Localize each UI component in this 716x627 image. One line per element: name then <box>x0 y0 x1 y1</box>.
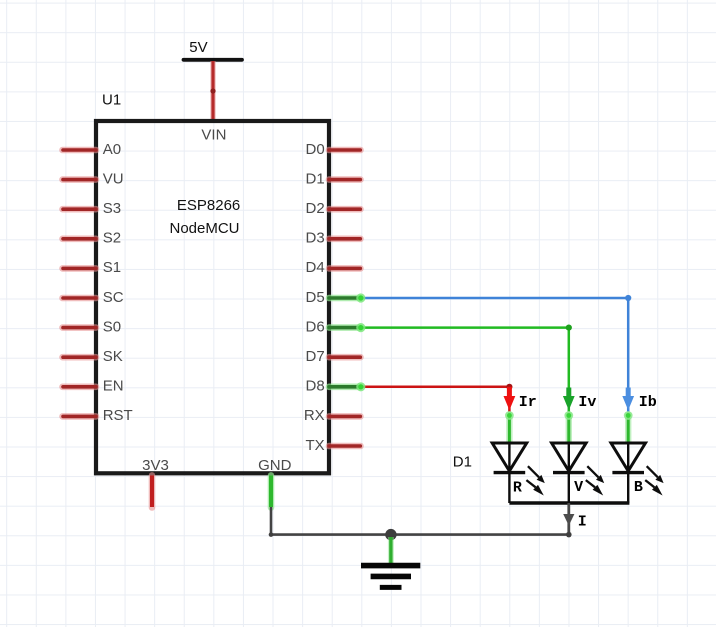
pin S1 <box>63 259 122 276</box>
svg-text:D1: D1 <box>453 454 472 471</box>
svg-text:GND: GND <box>258 457 292 474</box>
pin D6 connected <box>306 318 361 335</box>
pin D5 connected <box>306 289 361 306</box>
arrow Ib current <box>622 388 657 412</box>
pin S2 <box>63 230 122 247</box>
svg-text:D0: D0 <box>306 141 325 158</box>
LED V anode pin <box>564 411 573 443</box>
svg-text:D5: D5 <box>306 289 325 306</box>
LED B anode pin <box>624 411 633 443</box>
pin D7 <box>306 348 361 365</box>
pin RST <box>63 407 133 424</box>
pin SC <box>63 289 124 306</box>
LED D1 label <box>453 454 472 471</box>
diode LED B <box>611 443 664 503</box>
arrow Iv current <box>563 388 597 412</box>
power 5V <box>184 39 243 60</box>
pin RX <box>304 407 361 424</box>
wire D6 to LED V (green) <box>361 325 572 412</box>
node D8 pin endpoint <box>356 382 365 391</box>
svg-text:TX: TX <box>306 437 325 454</box>
wire D8 to LED R (red) <box>361 384 513 412</box>
wire GND net <box>269 507 572 537</box>
svg-text:B: B <box>634 479 643 496</box>
pin EN <box>63 378 124 395</box>
svg-text:R: R <box>513 479 522 496</box>
svg-text:D2: D2 <box>306 200 325 217</box>
pin D3 <box>306 230 361 247</box>
chip U1 ESP8266 NodeMCU <box>96 91 329 474</box>
pin D0 <box>306 141 361 158</box>
svg-text:5V: 5V <box>189 39 207 56</box>
pin D2 <box>306 200 361 217</box>
svg-text:VU: VU <box>103 170 124 187</box>
svg-text:Iv: Iv <box>578 394 596 411</box>
svg-text:I: I <box>578 514 587 531</box>
svg-text:D1: D1 <box>306 170 325 187</box>
svg-text:D3: D3 <box>306 230 325 247</box>
wire common cathode down <box>567 503 570 535</box>
svg-text:SK: SK <box>103 348 123 365</box>
svg-text:3V3: 3V3 <box>142 457 169 474</box>
svg-text:SC: SC <box>103 289 124 306</box>
arrow Ir current <box>504 387 537 411</box>
svg-text:S0: S0 <box>103 318 121 335</box>
node D6 pin endpoint <box>356 323 365 332</box>
pin S0 <box>63 318 122 335</box>
svg-text:D4: D4 <box>306 259 325 276</box>
pin S3 <box>63 200 122 217</box>
svg-text:EN: EN <box>103 378 124 395</box>
wire 5V to VIN <box>210 61 215 120</box>
ground symbol <box>361 537 420 587</box>
pin 3V3 <box>149 475 156 507</box>
diode LED V <box>552 443 605 503</box>
svg-text:V: V <box>574 479 583 496</box>
wire LED cathode rail <box>509 501 629 504</box>
pin TX <box>306 437 361 454</box>
svg-text:S1: S1 <box>103 259 121 276</box>
svg-text:S2: S2 <box>103 230 121 247</box>
svg-text:RX: RX <box>304 407 325 424</box>
svg-text:A0: A0 <box>103 141 121 158</box>
LED R anode pin <box>505 411 514 443</box>
diode LED R <box>492 443 545 503</box>
pin GND <box>268 475 275 507</box>
svg-text:ESP8266: ESP8266 <box>177 197 240 214</box>
svg-text:Ib: Ib <box>639 394 657 411</box>
node D5 pin endpoint <box>356 293 365 302</box>
wire D5 to LED B (blue) <box>361 295 631 412</box>
pin D4 <box>306 259 361 276</box>
svg-text:D6: D6 <box>306 318 325 335</box>
svg-text:D7: D7 <box>306 348 325 365</box>
pin SK <box>63 348 123 365</box>
svg-text:NodeMCU: NodeMCU <box>169 220 239 237</box>
arrow I current <box>563 514 587 531</box>
svg-text:S3: S3 <box>103 200 121 217</box>
pin VU <box>63 170 124 187</box>
junction ground node <box>385 529 396 540</box>
pin D8 connected <box>306 378 361 395</box>
pin D1 <box>306 170 361 187</box>
svg-text:U1: U1 <box>102 91 121 108</box>
pin A0 <box>63 141 122 158</box>
svg-text:VIN: VIN <box>201 126 226 143</box>
svg-text:D8: D8 <box>306 378 325 395</box>
svg-text:Ir: Ir <box>519 394 537 411</box>
svg-text:RST: RST <box>103 407 133 424</box>
